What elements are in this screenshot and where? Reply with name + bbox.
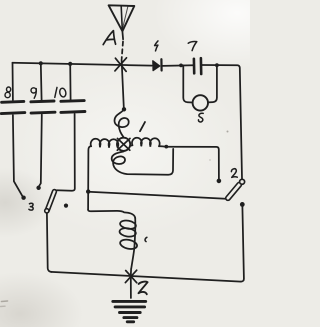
capacitor C7 [194,58,201,74]
coil 6 top lead [88,210,135,219]
label Z [139,282,148,295]
label 1 [140,122,145,131]
node dot on bus (cap9) [39,61,43,65]
paper speck [209,159,211,161]
wire: top bus [13,63,152,66]
node: contact dot cap9 [36,186,40,190]
capacitor C9 [31,101,55,113]
wire: bottom bus [51,272,241,282]
node: tap junction dot on left leg [86,189,90,193]
node: switch 2 upper contact dot [217,179,222,184]
wire: tap line to switch 2 lever [88,192,225,199]
diode 4 [153,59,162,70]
node: contact dot cap8 [21,196,25,200]
label 8 [5,87,11,98]
label 5 [198,113,203,122]
label A [103,31,115,45]
wire: lower contact down right side to bottom bus [241,207,244,282]
antenna A symbol [109,5,135,39]
wire: left vertical from bus [12,63,14,100]
label 7 [188,41,197,50]
X junction (antenna tap) [115,58,127,72]
wire: ground stem [130,278,132,299]
coil 1 rotor pigtail (bottom) [112,149,174,175]
coil 6 connecting line [131,218,135,269]
label 4 [155,41,158,51]
node: junction dot coil end [164,145,168,149]
node: switch 2 lower contact dot [240,202,245,207]
label 10 [55,87,67,97]
ground symbol [113,301,146,321]
label 2 [231,169,237,178]
wire: phones right branch [208,65,217,102]
coil 6 loop b [119,227,136,237]
node dot right of phones [215,63,219,67]
wire: coil 6 to ground junction [130,269,132,276]
X junction (ground tap) [125,270,136,283]
paper speck [1,305,6,307]
wire: cap7 to right corner and down [202,65,243,179]
coil 6 loop a [119,219,136,230]
wire: coil end to switch 2 upper contact [166,147,219,179]
wire: diode to cap7 [163,64,194,67]
coil 1 rotor [117,138,130,151]
wire: cap8 down to contact [13,115,23,196]
coil 1 left winding with left leg [88,139,118,210]
wire: switch 3 down to bottom bus [47,213,52,272]
capacitor C10 [61,101,85,113]
wire: cap9 stem [40,63,43,100]
paper speck [227,131,229,133]
node: coil top terminal dot [122,107,126,111]
coil 1 right winding [131,138,165,147]
wire: cap9 down to contact [39,115,42,187]
coil 1 rotor pigtail (top) [114,110,128,138]
wire: phones left branch [183,65,192,102]
capacitor C8 [1,101,25,113]
wire: antenna drop to coil [122,60,124,108]
coil 6 loop c [119,238,138,250]
node dot left of phones [179,64,183,68]
wire: cap10 stem [69,64,71,100]
paper speck [2,300,8,303]
antenna lead-in dashed wire [122,42,123,59]
switch 3 lever [45,189,57,213]
headphones 5 [193,95,208,110]
label 6 [145,237,147,241]
node: spare contact dot of switch 3 [64,204,68,208]
label 9 [31,88,36,98]
wire: cap10 down to switch [57,114,75,191]
label 3 [29,203,33,210]
node dot on bus (cap10) [68,62,72,66]
switch 2 lever [225,179,245,201]
